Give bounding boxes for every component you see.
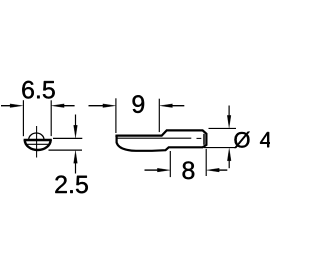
dim 9: value label bbox=[133, 95, 145, 113]
side view: inner edge / center line bbox=[117, 137, 191, 139]
dim 2.5: value label bbox=[55, 176, 87, 194]
dim 8: value label bbox=[183, 161, 195, 179]
dim 2.5: top extension line bbox=[53, 137, 82, 139]
dim 8: right arrow bbox=[207, 168, 228, 172]
dim 9: right arrow bbox=[160, 104, 184, 108]
dim 2.5: bottom extension line bbox=[49, 149, 83, 151]
dim 8: left extension line bbox=[169, 151, 171, 177]
dim 8: right extension line bbox=[205, 149, 207, 176]
dim 6.5: value label bbox=[22, 81, 54, 99]
dim 6.5: right extension line bbox=[50, 100, 52, 136]
end view: inner chord line bbox=[26, 143, 50, 145]
dim 9: left arrow bbox=[89, 104, 116, 108]
dim Ø4: bottom extension line bbox=[204, 147, 236, 149]
dim 2.5: top arrow (down) bbox=[74, 115, 78, 138]
end view: bold semicircular body bbox=[25, 140, 51, 150]
end view: pin arc above flat bbox=[29, 133, 44, 139]
dim Ø4: top arrow (down) bbox=[227, 106, 231, 128]
end view: bold flat top line bbox=[24, 139, 52, 141]
dim 8: left arrow bbox=[145, 168, 170, 172]
end view: vertical center line bbox=[36, 126, 38, 158]
side view: center line end dash bbox=[197, 137, 202, 139]
dim 9: right extension line bbox=[158, 99, 160, 132]
side view: end chamfer edge bbox=[203, 134, 205, 145]
side view: part outline bbox=[117, 130, 207, 150]
dim 2.5: bottom arrow (up) bbox=[74, 151, 78, 174]
dim Ø4: bottom arrow (up) bbox=[227, 148, 231, 168]
dim Ø4: value label bbox=[234, 132, 250, 148]
dim 9: left extension line bbox=[115, 98, 117, 133]
dim 6.5: left arrow bbox=[1, 104, 23, 108]
dim 6.5: left extension line bbox=[22, 100, 24, 136]
dim 6.5: right arrow bbox=[52, 104, 75, 108]
dim Ø4: top extension line bbox=[209, 127, 237, 129]
